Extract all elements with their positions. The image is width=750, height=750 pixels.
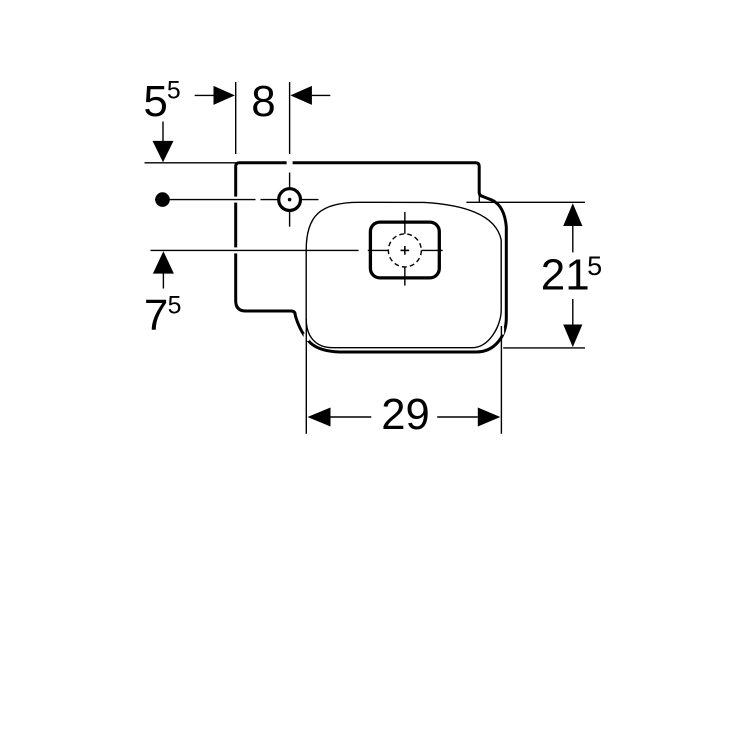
svg-text:21: 21: [541, 250, 590, 299]
svg-text:7: 7: [144, 291, 168, 340]
svg-text:5: 5: [168, 292, 182, 319]
svg-text:5: 5: [587, 251, 602, 281]
svg-text:5: 5: [167, 77, 181, 104]
svg-text:8: 8: [251, 77, 275, 126]
svg-text:5: 5: [143, 77, 167, 126]
svg-text:29: 29: [381, 391, 430, 439]
